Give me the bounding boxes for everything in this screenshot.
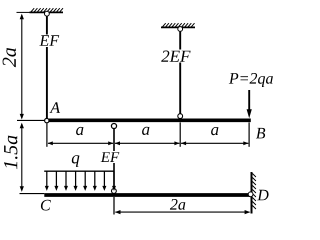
tick at beam C level left [20, 193, 45, 195]
node A label [49, 102, 60, 113]
distributed load q top line [44, 170, 114, 172]
dimension label 2a (bottom) [170, 199, 185, 210]
dimension 2a (left vertical) [21, 15, 23, 118]
dimension label 1.5a (left) [4, 136, 18, 170]
ceiling support top-left [30, 8, 64, 12]
wall support at D [252, 172, 256, 214]
load label q [72, 155, 80, 167]
force label P=2qa [229, 73, 273, 87]
pin hinge at ceiling 2 [178, 27, 183, 32]
value label 2EF [161, 51, 190, 62]
wire column EF middle [113, 129, 115, 188]
dimension extension below 2EF column [179, 122, 181, 146]
tick at beam A level left [17, 119, 44, 121]
dimension extension below B [248, 122, 250, 146]
white gap for middle EF label [100, 151, 120, 163]
distributed load arrows [45, 171, 116, 191]
white gap for EF label [39, 35, 61, 48]
wire column 2EF [179, 32, 181, 114]
beam A-B [49, 119, 251, 123]
dimension extension below middle column [113, 197, 115, 215]
dimension label a (third) [211, 127, 218, 135]
hinge circle on top of beam (2EF column) [178, 114, 183, 119]
value label EF (left column) [39, 35, 59, 46]
force P arrow [248, 90, 250, 111]
beam C-D [44, 193, 251, 197]
dimension a (second) [115, 142, 179, 144]
dimension extension below A [46, 123, 48, 147]
hinge at node D [248, 192, 253, 197]
node D label [257, 190, 269, 201]
value label EF (middle column) [101, 152, 120, 162]
node C label [41, 200, 51, 211]
wire column EF top-left [46, 16, 48, 118]
dimension a (third) [181, 142, 248, 144]
dimension a (first) [48, 142, 113, 144]
hinge at node A [45, 118, 49, 122]
tick at ceiling level left [17, 11, 30, 13]
pin hinge at ceiling 1 [45, 11, 50, 16]
ceiling support top-middle [161, 23, 195, 27]
dimension label a (first) [76, 127, 83, 135]
dimension 1.5a (left vertical) [21, 124, 23, 190]
node B label [256, 128, 265, 138]
dimension 2a (bottom) [115, 211, 249, 213]
hinge under beam (middle column) [111, 123, 116, 128]
dimension label a (second) [142, 127, 149, 135]
white gap for 2EF label [161, 50, 191, 63]
dimension label 2a (left) [3, 48, 16, 67]
hinge at lower beam (middle column) [112, 189, 117, 194]
